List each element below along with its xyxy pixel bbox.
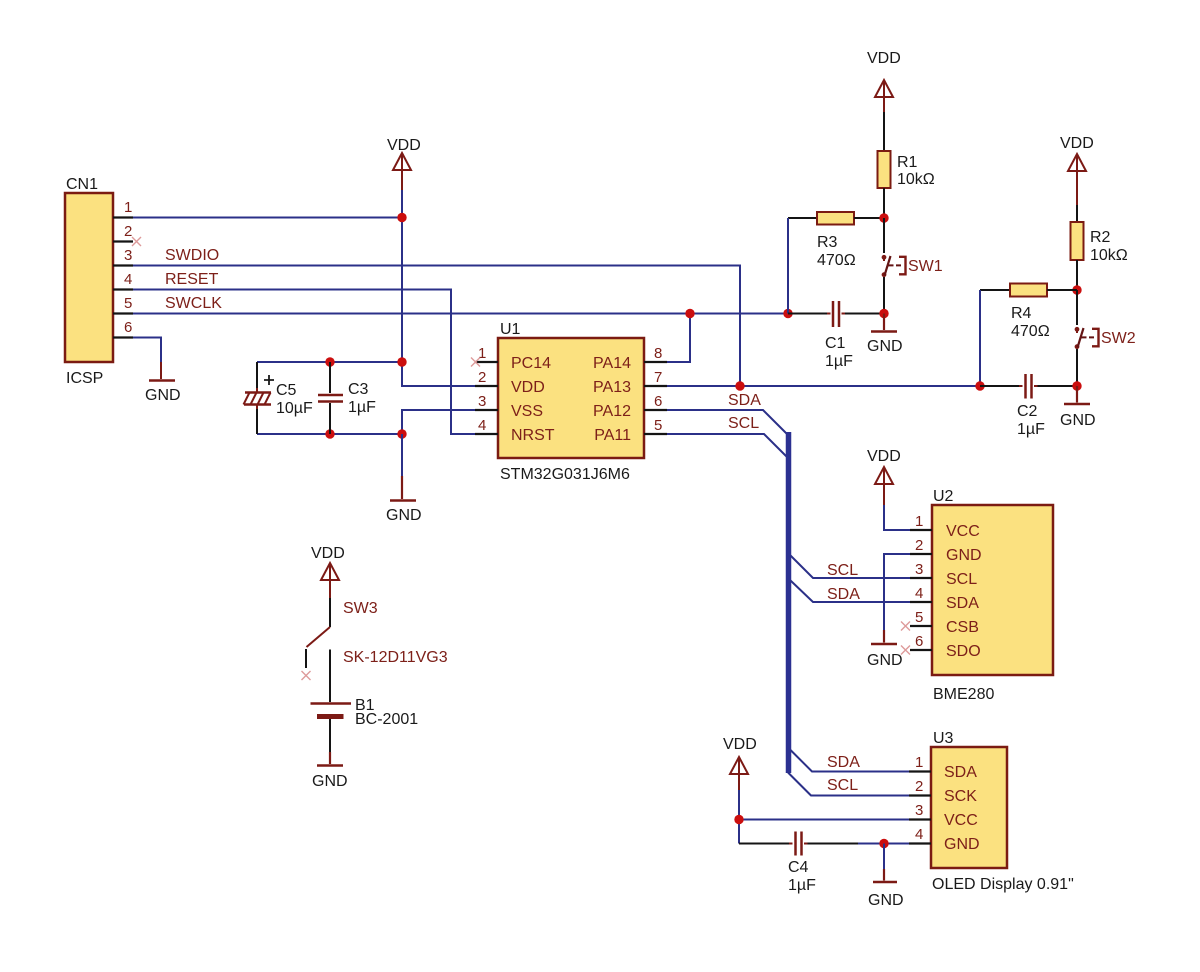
- svg-text:SCL: SCL: [827, 777, 858, 794]
- svg-text:10µF: 10µF: [276, 400, 313, 417]
- junction R2 / R4 / SW2: [1072, 285, 1081, 294]
- svg-text:VDD: VDD: [723, 736, 757, 753]
- no-connect X on CN1 pin 2: [132, 237, 141, 246]
- svg-text:4: 4: [478, 417, 486, 434]
- junction top rail at VDD drop: [397, 357, 406, 366]
- junction R1 / R3 / SW1: [879, 213, 888, 222]
- power symbol VDD above U3: [723, 736, 757, 790]
- wire RESET net: [133, 290, 475, 435]
- svg-text:C4: C4: [788, 859, 809, 876]
- svg-text:GND: GND: [868, 892, 904, 909]
- IC U1 STM32G031J6M6: [475, 321, 667, 483]
- svg-text:BC-2001: BC-2001: [355, 711, 418, 728]
- svg-text:GND: GND: [145, 387, 181, 404]
- svg-text:6: 6: [915, 633, 923, 650]
- resistor R2 10k: [1071, 205, 1128, 290]
- svg-text:U2: U2: [933, 488, 954, 505]
- power symbol VDD near CN1: [387, 137, 421, 190]
- ground at CN1: [145, 362, 181, 404]
- svg-text:R1: R1: [897, 154, 918, 171]
- I2C bus (thick): [786, 432, 792, 773]
- wire VDD net from CN1 pin1: [133, 217, 402, 219]
- svg-text:STM32G031J6M6: STM32G031J6M6: [500, 466, 630, 483]
- power symbol VDD above SW3: [311, 545, 345, 598]
- wire U1 pin6 SDA to bus: [667, 410, 787, 434]
- wire U1 pin7 PA13 net: [667, 385, 980, 387]
- junction C4 / U3 GND: [879, 839, 888, 848]
- IC U3 OLED display: [909, 730, 1074, 893]
- svg-text:6: 6: [124, 319, 132, 336]
- svg-text:RESET: RESET: [165, 271, 219, 288]
- capacitor C1 1uF: [788, 301, 884, 370]
- svg-text:VCC: VCC: [946, 523, 980, 540]
- svg-text:1: 1: [915, 754, 923, 771]
- junction top rail at C3: [325, 357, 334, 366]
- svg-text:SW2: SW2: [1101, 330, 1136, 347]
- ground under SW1: [867, 314, 903, 356]
- ground main: [386, 476, 422, 524]
- svg-text:SCL: SCL: [728, 415, 759, 432]
- svg-text:ICSP: ICSP: [66, 370, 103, 387]
- svg-text:SW3: SW3: [343, 600, 378, 617]
- svg-text:GND: GND: [1060, 412, 1096, 429]
- svg-text:NRST: NRST: [511, 427, 555, 444]
- battery B1 BC-2001: [311, 697, 419, 752]
- svg-text:2: 2: [915, 778, 923, 795]
- junction R4 / PA13: [975, 381, 984, 390]
- svg-text:R2: R2: [1090, 229, 1111, 246]
- svg-text:1: 1: [915, 513, 923, 530]
- wire to main ground: [401, 434, 403, 476]
- svg-text:4: 4: [915, 585, 923, 602]
- wire VDD to U3 pin3: [738, 790, 740, 844]
- svg-text:470Ω: 470Ω: [1011, 323, 1050, 340]
- wire bus to U3 SCL: [788, 773, 909, 796]
- no-connect X on U1 pin 1: [471, 358, 480, 367]
- svg-text:2: 2: [124, 223, 132, 240]
- svg-text:VDD: VDD: [867, 448, 901, 465]
- wire U1 pin5 SCL to bus: [667, 434, 787, 457]
- svg-text:R4: R4: [1011, 305, 1032, 322]
- svg-text:SDA: SDA: [827, 586, 860, 603]
- svg-text:VDD: VDD: [387, 137, 421, 154]
- svg-text:SDO: SDO: [946, 643, 981, 660]
- svg-text:U3: U3: [933, 730, 954, 747]
- power symbol VDD above R1: [867, 50, 901, 112]
- svg-text:5: 5: [124, 295, 132, 312]
- svg-text:GND: GND: [867, 652, 903, 669]
- capacitor C3 (1uF): [318, 362, 376, 434]
- wire VDD rail to U1 pin2: [402, 362, 475, 386]
- svg-text:4: 4: [915, 826, 923, 843]
- wire R4 to PA13 net: [979, 290, 981, 386]
- wire R3 to SWCLK: [787, 218, 789, 314]
- svg-text:GND: GND: [867, 338, 903, 355]
- svg-text:SDA: SDA: [728, 392, 761, 409]
- wire SWCLK net: [133, 313, 788, 315]
- wire SWDIO net: [133, 266, 740, 387]
- svg-text:7: 7: [654, 369, 662, 386]
- svg-text:U1: U1: [500, 321, 521, 338]
- svg-text:3: 3: [124, 247, 132, 264]
- svg-text:GND: GND: [946, 547, 982, 564]
- junction C2 / SW2 / GND: [1072, 381, 1081, 390]
- wire VDD to U2 pin1: [884, 505, 910, 530]
- junction VDD/CN1 pin1: [397, 213, 406, 222]
- svg-text:10kΩ: 10kΩ: [1090, 247, 1128, 264]
- svg-text:SDA: SDA: [946, 595, 979, 612]
- svg-text:SWCLK: SWCLK: [165, 295, 222, 312]
- svg-text:6: 6: [654, 393, 662, 410]
- ground at U2: [867, 630, 903, 669]
- svg-text:SCL: SCL: [946, 571, 977, 588]
- svg-text:470Ω: 470Ω: [817, 252, 856, 269]
- junction bottom rail at GND drop: [397, 429, 406, 438]
- svg-text:C2: C2: [1017, 403, 1038, 420]
- svg-text:GND: GND: [386, 507, 422, 524]
- no-connect X on U2 pin 5: [901, 622, 910, 631]
- wire GND bottom rail: [257, 433, 402, 435]
- svg-text:VDD: VDD: [1060, 135, 1094, 152]
- svg-text:VCC: VCC: [944, 812, 978, 829]
- svg-text:C5: C5: [276, 382, 297, 399]
- switch SW3 SK-12D11VG3: [306, 598, 448, 702]
- svg-text:1: 1: [478, 345, 486, 362]
- capacitor C2 1uF: [980, 374, 1077, 438]
- svg-text:4: 4: [124, 271, 132, 288]
- no-connect X on SW3 throw: [302, 671, 311, 680]
- svg-text:3: 3: [915, 561, 923, 578]
- svg-text:GND: GND: [944, 836, 980, 853]
- junction SWCLK / pin8: [685, 309, 694, 318]
- svg-text:10kΩ: 10kΩ: [897, 171, 935, 188]
- svg-text:1µF: 1µF: [1017, 421, 1045, 438]
- ground at U3: [868, 844, 904, 910]
- wire U1 pin8 to SWCLK: [667, 314, 690, 363]
- junction VDD / VCC: [734, 815, 743, 824]
- svg-text:GND: GND: [312, 773, 348, 790]
- svg-text:VDD: VDD: [867, 50, 901, 67]
- wire CN1 pin6 to ground: [133, 338, 161, 363]
- power symbol VDD above U2: [867, 448, 901, 505]
- capacitor C5 (polarized 10uF): [244, 362, 314, 434]
- junction bottom rail at C3: [325, 429, 334, 438]
- resistor R3 470 ohm: [788, 212, 884, 269]
- svg-text:1µF: 1µF: [825, 353, 853, 370]
- svg-text:C3: C3: [348, 381, 369, 398]
- svg-text:VDD: VDD: [511, 379, 545, 396]
- resistor R4 470 ohm: [980, 284, 1077, 341]
- svg-text:SCL: SCL: [827, 562, 858, 579]
- wire bus to U2 SCL: [791, 556, 911, 579]
- svg-text:PA11: PA11: [594, 427, 631, 444]
- svg-text:CSB: CSB: [946, 619, 979, 636]
- svg-text:SK-12D11VG3: SK-12D11VG3: [343, 649, 448, 666]
- svg-text:SDA: SDA: [827, 754, 860, 771]
- wire U3 VCC: [739, 819, 909, 821]
- power symbol VDD above R2: [1060, 135, 1094, 205]
- svg-text:3: 3: [478, 393, 486, 410]
- svg-text:2: 2: [478, 369, 486, 386]
- svg-text:PC14: PC14: [511, 355, 551, 372]
- svg-text:5: 5: [654, 417, 662, 434]
- wire VSS U1 pin3 to ground rail: [402, 410, 475, 434]
- svg-text:R3: R3: [817, 234, 838, 251]
- svg-text:1: 1: [124, 199, 132, 216]
- svg-text:SCK: SCK: [944, 788, 977, 805]
- ground at B1: [312, 752, 348, 790]
- svg-text:SW1: SW1: [908, 258, 943, 275]
- svg-text:1µF: 1µF: [348, 399, 376, 416]
- svg-text:PA14: PA14: [593, 355, 631, 372]
- connector CN1: [65, 176, 133, 387]
- svg-text:BME280: BME280: [933, 686, 994, 703]
- wire U2 pin2 to ground: [884, 554, 910, 630]
- svg-text:C1: C1: [825, 335, 846, 352]
- svg-text:VDD: VDD: [311, 545, 345, 562]
- svg-text:SWDIO: SWDIO: [165, 247, 219, 264]
- wire VDD vertical drop: [401, 190, 403, 362]
- resistor R1 10k: [878, 112, 935, 218]
- svg-text:PA12: PA12: [593, 403, 631, 420]
- junction C1 / SW1 / GND: [879, 309, 888, 318]
- svg-text:2: 2: [915, 537, 923, 554]
- junction SWDIO / PA13: [735, 381, 744, 390]
- switch SW1: [882, 218, 943, 314]
- wire bus to U3 SDA: [791, 750, 910, 772]
- svg-text:SDA: SDA: [944, 764, 977, 781]
- svg-text:PA13: PA13: [593, 379, 631, 396]
- IC U2 BME280: [910, 488, 1053, 703]
- svg-text:CN1: CN1: [66, 176, 98, 193]
- svg-text:3: 3: [915, 802, 923, 819]
- ground under SW2: [1060, 386, 1096, 429]
- junction SWCLK / R3 / C1: [783, 309, 792, 318]
- svg-text:1µF: 1µF: [788, 877, 816, 894]
- wire VDD top rail: [257, 361, 402, 363]
- wire bus to U2 SDA: [791, 581, 911, 603]
- capacitor C4 1uF: [739, 832, 909, 895]
- switch SW2: [1075, 290, 1136, 386]
- svg-text:OLED Display 0.91": OLED Display 0.91": [932, 876, 1074, 893]
- no-connect X on U2 pin 6: [901, 646, 910, 655]
- svg-text:5: 5: [915, 609, 923, 626]
- svg-text:VSS: VSS: [511, 403, 543, 420]
- svg-text:8: 8: [654, 345, 662, 362]
